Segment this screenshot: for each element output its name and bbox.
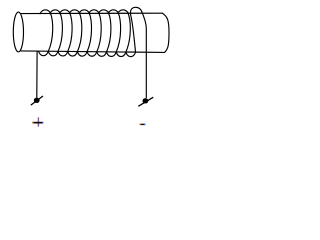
inductor L1 winding: top scallop arcs of turns (40, 10, 51, 14)
label "+" vertical bar (38, 117, 39, 126)
label "+" orange fringe tip (32, 122, 34, 124)
terminal node - (negative) dot (143, 98, 149, 103)
terminal node + slash mark (31, 96, 43, 105)
inductor L1 winding: front strands of turns (48, 13, 52, 52)
inductor L1 winding: bottom crossing loops of turns (39, 51, 49, 55)
coil core cylinder: top edge line (20, 12, 162, 14)
label "+" blue fringe tip (42, 122, 43, 124)
coil core cylinder: left end cap ellipse (13, 12, 23, 52)
label "+" horizontal bar (32, 122, 43, 124)
solenoid electromagnet L1 drawing (0, 0, 175, 130)
label "-" bar (140, 124, 146, 125)
coil core cylinder: right end cap arc (162, 13, 169, 52)
terminal node - slash mark (138, 97, 153, 106)
coil core cylinder: bottom edge line (21, 51, 165, 53)
label "-" orange fringe tip (140, 124, 141, 125)
label "-" blue fringe tip (144, 124, 145, 125)
inductor L1 last turn and wire to negative terminal (130, 7, 146, 97)
wire from first turn to positive terminal (36, 51, 38, 97)
terminal node + (positive) dot (34, 98, 40, 103)
